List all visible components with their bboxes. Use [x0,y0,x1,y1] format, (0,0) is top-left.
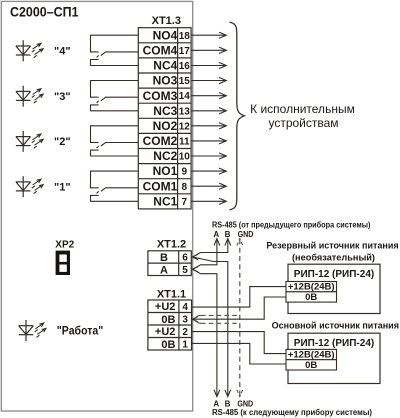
relay contact K2 wires NO2/COM2/NC2 [91,126,139,156]
svg-text:7: 7 [182,197,188,208]
curly brace grouping outputs [230,22,245,209]
arrow up wire GND dashed [237,239,243,246]
svg-text:(необязательный): (необязательный) [292,253,375,263]
svg-text:NC3: NC3 [153,104,177,118]
svg-text:13: 13 [179,106,191,117]
svg-text:0В: 0В [161,339,175,351]
svg-text:"4": "4" [54,46,71,58]
RS-485 GND wire (dashed vertical) [239,239,241,395]
wire 0В pin 3 to reserve РИП 0В [192,297,286,319]
svg-text:18: 18 [179,31,191,42]
labels А В GND (bottom) [213,399,253,408]
LED indicator HL4 [16,40,43,61]
svg-text:NC2: NC2 [153,149,177,163]
svg-text:NO4: NO4 [153,28,178,42]
svg-text:Основной источник питания: Основной источник питания [272,321,399,331]
svg-text:GND: GND [238,230,254,239]
svg-text:В: В [225,230,231,239]
arrowhead into pin 6 [192,254,198,259]
arrow up wire B (to previous device) [225,239,231,246]
svg-text:устройствам: устройствам [268,116,338,130]
svg-text:А: А [213,399,219,408]
svg-text:А: А [160,264,168,276]
arrow up wire A (to previous device) [214,239,220,246]
LED indicator HL1 [16,176,43,197]
connector table XT1.1 [148,300,192,350]
svg-text:"1": "1" [54,182,71,194]
svg-text:NO2: NO2 [153,119,178,133]
svg-text:0В: 0В [305,292,317,303]
XT1.2 names B/A and pins 6/5 [160,252,188,276]
labels А В GND (top) [213,230,253,239]
reserve terminal +12В(24В) [286,282,337,292]
svg-text:COM1: COM1 [143,179,178,193]
dashed GND branch from above into pin 3 [195,315,202,318]
XT1.3 contact names and pin numbers 18..7 [143,28,191,208]
svg-text:NO3: NO3 [153,74,178,88]
svg-text:6: 6 [182,253,188,264]
svg-text:"Работа": "Работа" [57,326,104,338]
arrowhead into pin 3 [192,317,198,322]
LED indicator HL2 [16,131,43,152]
svg-text:"3": "3" [54,91,71,103]
connector table XT1.3 [138,28,191,209]
svg-text:ХТ1.1: ХТ1.1 [157,288,186,300]
svg-text:12: 12 [179,121,191,132]
svg-text:РИП-12 (РИП-24): РИП-12 (РИП-24) [294,338,374,349]
svg-text:10: 10 [179,152,191,163]
svg-text:8: 8 [182,182,188,193]
svg-text:RS-485 (от предыдущего прибора: RS-485 (от предыдущего прибора системы) [212,221,371,230]
RS-485 wire B (vertical) with branches to pin 6 [193,239,228,396]
arrow down wire A (to next device) [214,390,220,397]
wire 0В pin 1 to main РИП 0В [192,343,287,364]
svg-text:0В: 0В [161,314,175,326]
arrowhead into pin 5 [192,267,198,272]
connector table XT1.2 [148,251,191,276]
LED indicator Работа [19,320,46,341]
svg-text:NC4: NC4 [153,59,177,73]
svg-text:NO1: NO1 [153,164,178,178]
relay contact K1 wires NO1/COM1/NC1 [91,171,139,201]
svg-text:15: 15 [179,76,191,87]
svg-text:11: 11 [179,137,190,148]
svg-text:NC1: NC1 [153,194,177,208]
svg-text:0В: 0В [305,360,317,371]
reserve terminal 0В [286,292,337,302]
svg-text:1: 1 [182,339,188,350]
svg-text:РИП-12 (РИП-24): РИП-12 (РИП-24) [294,269,374,280]
svg-text:16: 16 [179,61,191,72]
svg-text:А: А [213,230,219,239]
svg-text:COM3: COM3 [143,89,178,103]
svg-text:2: 2 [182,327,188,338]
jumper header XP2 [56,251,70,275]
main power supply box РИП-12 (РИП-24) [288,333,380,383]
svg-text:14: 14 [179,91,191,102]
svg-text:GND: GND [237,399,253,408]
wire +U2 pin 4 to reserve РИП +12В [192,287,286,308]
relay contact K4 wires NO4/COM4/NC4 [91,35,139,65]
arrow down wire GND dashed [237,390,243,397]
svg-text:"2": "2" [54,136,71,148]
wire +U2 pin 2 to main РИП +12В [192,332,287,354]
svg-text:COM2: COM2 [143,134,178,148]
svg-text:4: 4 [182,302,188,313]
arrow down wire B (to next device) [225,390,231,397]
svg-text:ХТ1.2: ХТ1.2 [157,239,186,251]
svg-text:5: 5 [182,265,188,276]
svg-text:17: 17 [179,46,191,57]
main terminal +12В(24В) [286,349,337,359]
svg-text:RS-485 (к следующему прибору с: RS-485 (к следующему прибору системы) [212,408,372,417]
svg-text:В: В [225,399,231,408]
svg-text:К исполнительным: К исполнительным [250,102,355,116]
device outline С2000-СП1 [1,1,192,411]
svg-text:ХТ1.3: ХТ1.3 [152,15,181,27]
reserve power supply box РИП-12 (РИП-24) [288,264,380,313]
svg-text:ХР2: ХР2 [55,240,74,251]
RS-485 wire A (vertical) with branches to pin 5 [193,239,217,396]
svg-text:+U2: +U2 [155,301,176,313]
dashed GND branch to below from pin 3 [195,320,202,323]
XT1.1 names +U2/0В and pins 4..1 [155,301,189,351]
relay contact K3 wires NO3/COM3/NC3 [91,81,139,111]
svg-text:COM4: COM4 [143,43,178,57]
svg-text:Резервный источник питания: Резервный источник питания [266,240,398,250]
svg-text:В: В [160,252,168,264]
main terminal 0В [286,360,337,370]
svg-text:9: 9 [182,167,188,178]
output arrows pins 18..7 to executive devices [192,32,227,204]
svg-text:+U2: +U2 [155,326,176,338]
svg-text:С2000–СП1: С2000–СП1 [10,5,79,21]
LED indicator HL3 [16,86,43,107]
svg-text:3: 3 [182,314,188,325]
